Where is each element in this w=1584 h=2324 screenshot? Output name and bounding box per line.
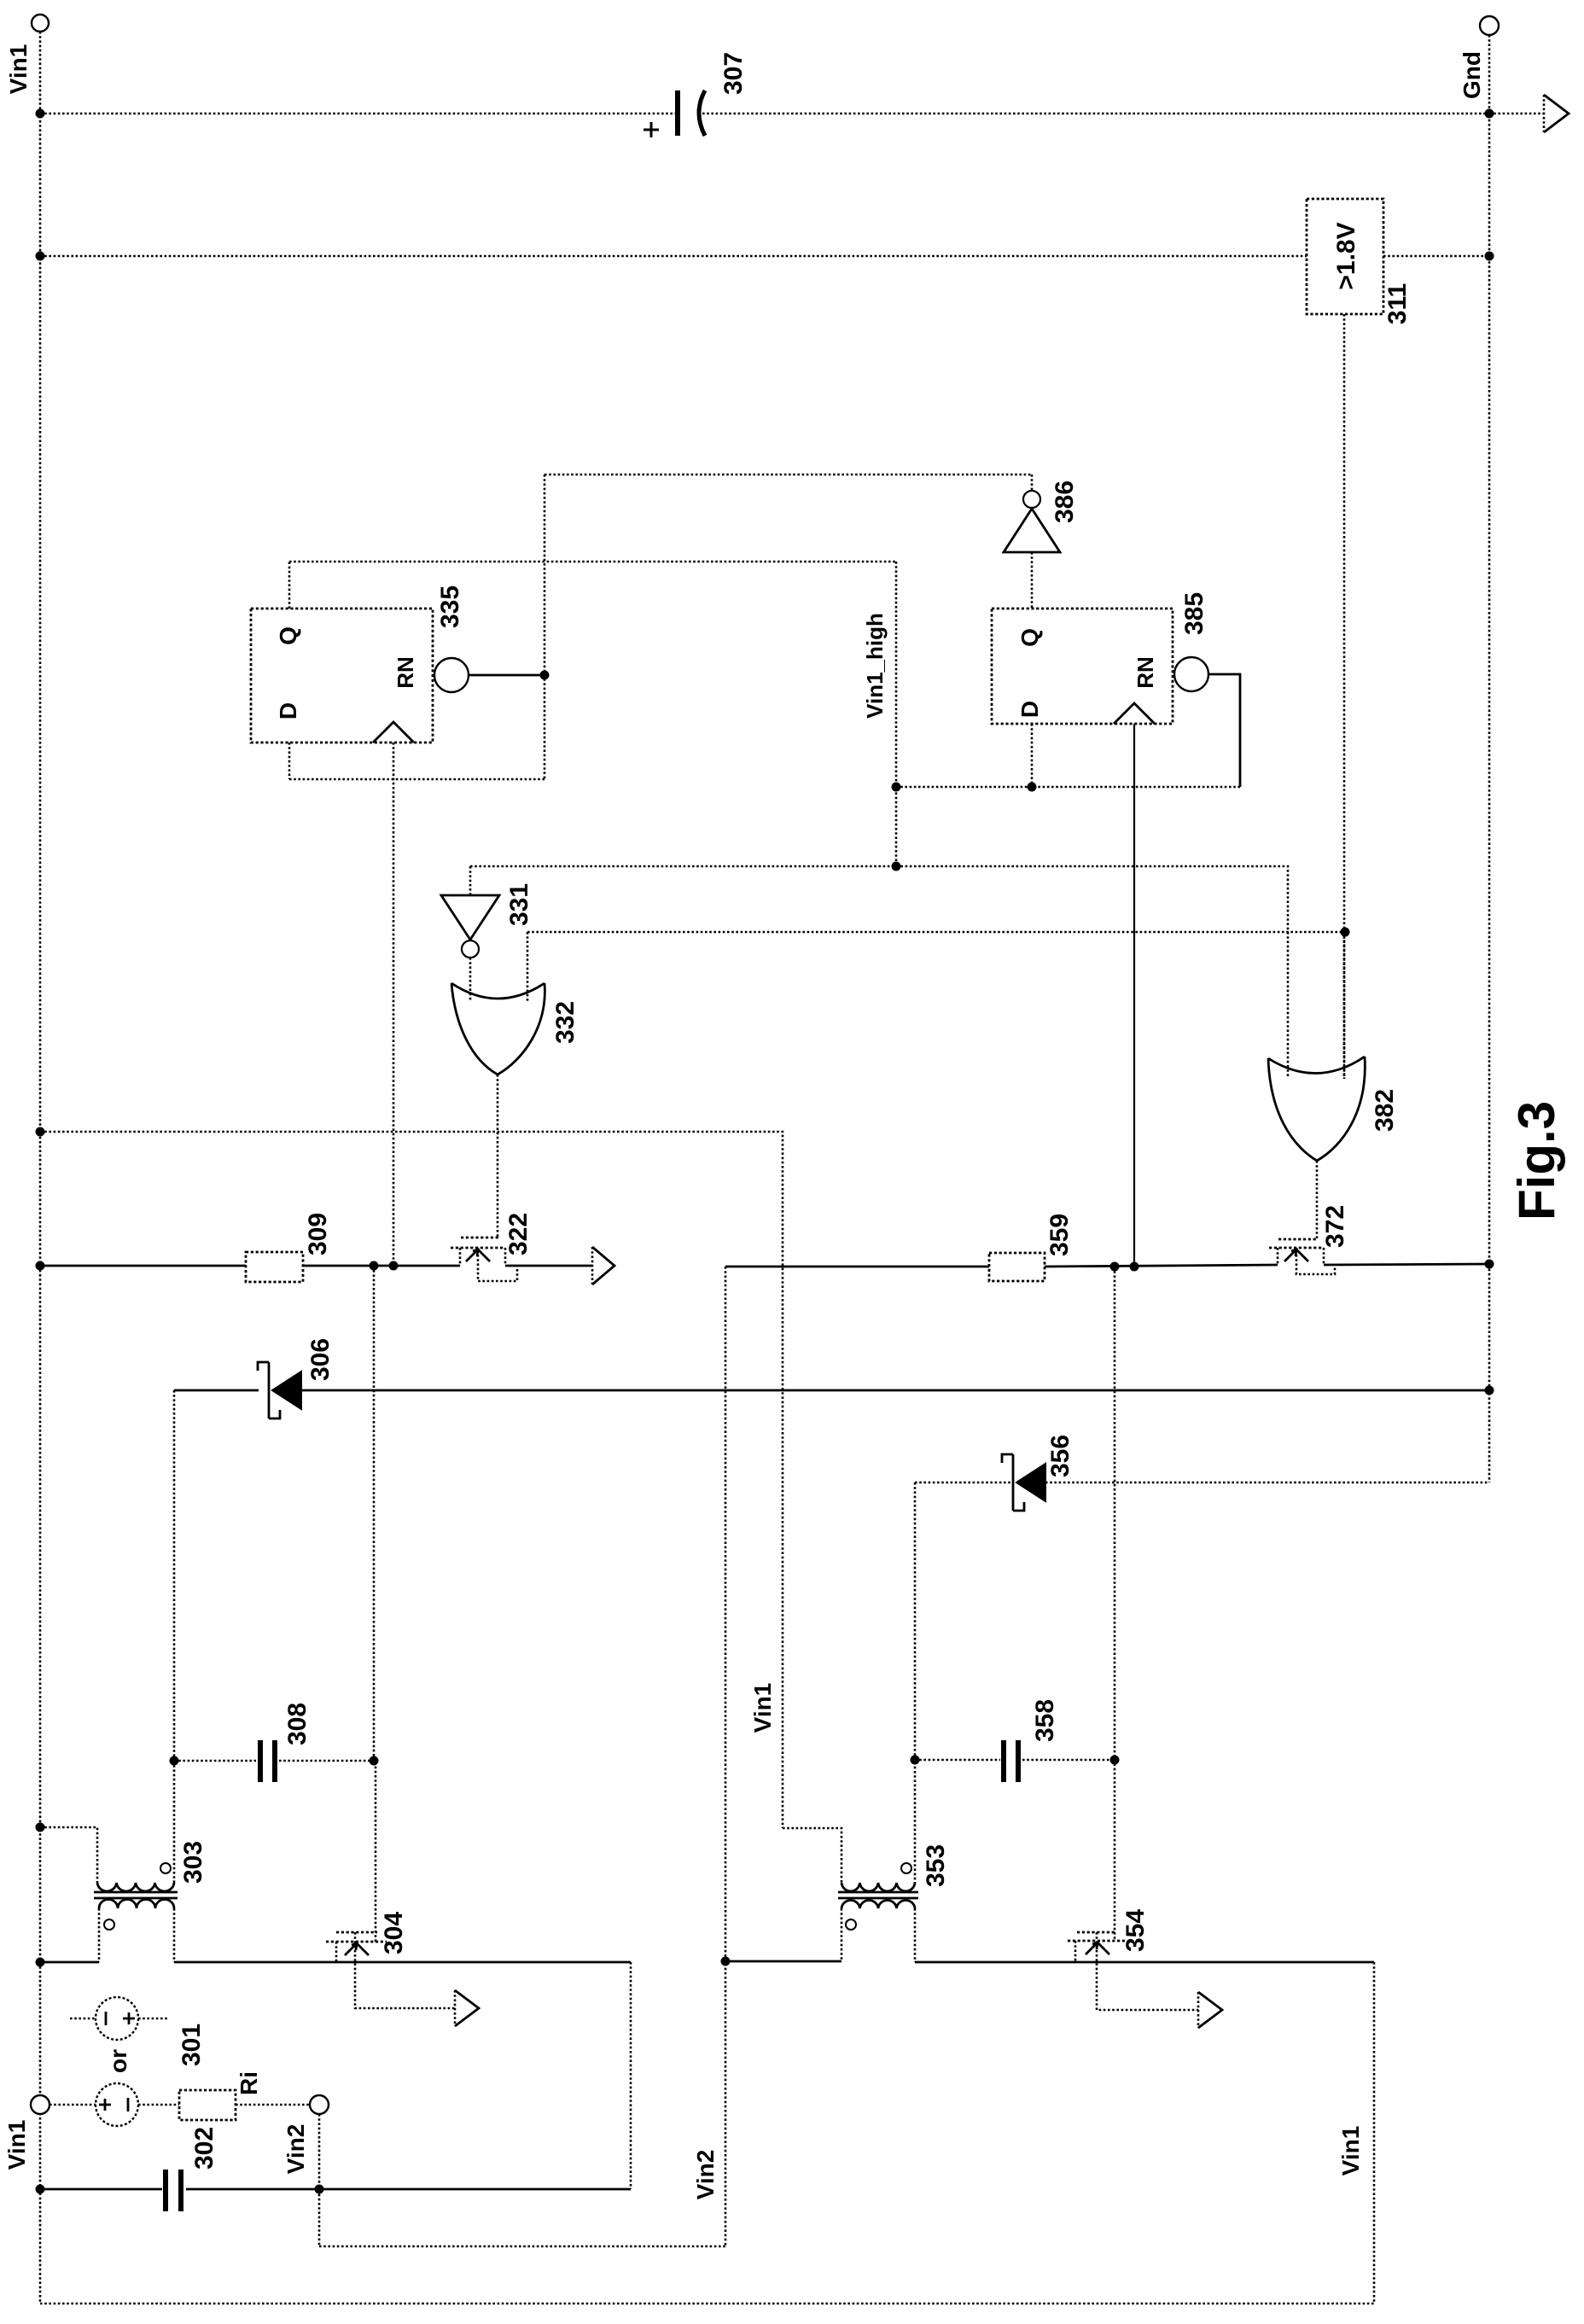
svg-text:Fig.3: Fig.3 <box>1508 1101 1565 1220</box>
wire MOSFET 322 drain to arrow <box>505 1265 592 1267</box>
svg-text:D: D <box>275 702 301 719</box>
wire Vin1_high row to inverter 331 and comparator drop <box>470 866 1288 932</box>
capacitor C302 <box>166 2170 181 2211</box>
node Vin1_high vertical <box>895 562 898 866</box>
svg-text:Vin1: Vin1 <box>749 1683 776 1733</box>
svg-text:301: 301 <box>178 2024 206 2066</box>
svg-text:332: 332 <box>551 1001 579 1044</box>
inverter U386 <box>1004 491 1060 552</box>
wire MOSFET 372 drain to Gnd bus <box>1324 1264 1489 1265</box>
svg-text:or: or <box>105 2049 131 2073</box>
wire 353 primary left leg <box>841 1908 843 1961</box>
wire Vin1 to transformer 303 top <box>40 1827 97 1883</box>
junction dot zener branch/1483 <box>370 1261 379 1271</box>
wire zener 356 row left <box>915 1482 1013 1484</box>
junction dot Vin1/2565 <box>36 2185 45 2194</box>
wire RN335 bubble to node <box>469 674 544 677</box>
junction dot Gnd/second rail <box>1485 252 1494 261</box>
arrow off-page (354 gate) <box>1198 1992 1222 2028</box>
svg-text:Q: Q <box>1016 628 1043 647</box>
svg-text:311: 311 <box>1383 283 1412 324</box>
junction dot Vin2/2298 <box>721 1957 731 1966</box>
capacitor C358 <box>1004 1740 1018 1782</box>
wire 303 primary right leg <box>173 1908 176 1962</box>
svg-text:303: 303 <box>179 1841 207 1884</box>
wire bus 1483 left (Vin1 to resistor 309) <box>40 1265 246 1267</box>
wire comparator 311 output to Gnd bus <box>1383 255 1489 258</box>
svg-text:D: D <box>1016 701 1043 718</box>
svg-text:Q: Q <box>275 626 301 645</box>
svg-text:306: 306 <box>306 1338 335 1381</box>
resistor Ri 302 <box>179 2090 236 2120</box>
svg-text:Vin1_high: Vin1_high <box>862 613 888 719</box>
transformer T353 <box>838 1863 918 1930</box>
capacitor C308 <box>260 1740 275 1782</box>
wire 353 primary right leg <box>914 1908 917 1962</box>
svg-text:385: 385 <box>1180 592 1208 635</box>
wire Q335 to Vin1_high corner <box>289 561 896 563</box>
wire capacitor 302 row <box>40 2188 631 2191</box>
svg-text:Vin1: Vin1 <box>1337 2126 1364 2176</box>
wire zener 306 to Gnd bus <box>301 1389 1489 1392</box>
wire source bus 353 to corner (Vin1 loop) <box>915 1961 1374 1964</box>
terminal Gnd (top right) <box>1480 16 1499 35</box>
junction dot 358 right <box>1110 1756 1120 1765</box>
terminal Vin1 (top left) <box>32 15 49 32</box>
wire resistor 359 to MOSFET 372 <box>1045 1265 1278 1267</box>
D flip-flop U385 <box>992 609 1173 724</box>
svg-text:RN: RN <box>1133 656 1158 689</box>
junction dot 358 left <box>911 1756 920 1765</box>
junction dot Vin2/2565 <box>315 2185 324 2194</box>
wire Vin2 bus (coil to corner) <box>174 1961 631 1964</box>
wire Vin1_high to RN385 run <box>896 786 1240 789</box>
wire OR 382 left input drop <box>1287 932 1290 1077</box>
wire clock U335 to node 1483 <box>393 743 395 1266</box>
svg-text:309: 309 <box>304 1213 332 1255</box>
clock pin triangle of U335 <box>373 722 414 743</box>
wire capacitor 308 row <box>174 1760 374 1762</box>
svg-text:Vin1: Vin1 <box>5 44 32 95</box>
wire Vin1 left vertical bus <box>39 32 42 2304</box>
wire zener 356 to Gnd corner <box>1045 1482 1489 1484</box>
junction dot Vin1_high/922 <box>892 783 901 792</box>
zener diode D356 <box>1002 1454 1045 1511</box>
D flip-flop U335 <box>251 609 433 743</box>
terminal Vin2 <box>310 2095 329 2114</box>
junction dot Vin1/2141 <box>36 1823 45 1832</box>
wire Q335 up <box>288 562 291 609</box>
wire Vin2 node to 353 coil <box>725 1960 841 1963</box>
svg-text:322: 322 <box>504 1213 533 1255</box>
svg-text:>1.8V: >1.8V <box>1332 222 1360 289</box>
wire 354 drain vertical <box>1114 1267 1116 1941</box>
wire comparator 311 output down to OR gates <box>1343 314 1346 1079</box>
comparator U311 box >1.8V <box>1307 199 1383 314</box>
svg-text:308: 308 <box>283 1703 312 1745</box>
voltage source V301 (lower) <box>49 2083 179 2126</box>
svg-text:331: 331 <box>505 883 533 926</box>
svg-text:302: 302 <box>190 2127 218 2170</box>
arrow off-page (Gnd rail) <box>1544 95 1569 132</box>
wire inverter 386 output drop <box>1031 475 1034 491</box>
transistor Q372 <box>1269 1239 1335 1274</box>
OR gate U332 <box>451 983 544 1075</box>
wire D335 down <box>288 743 291 779</box>
capacitor C307 <box>643 90 705 137</box>
svg-text:RN: RN <box>393 656 418 689</box>
svg-text:354: 354 <box>1121 1909 1150 1952</box>
terminal Vin1 (bottom left) <box>31 2095 49 2114</box>
junction dot Vin1_high/1015 <box>892 862 901 871</box>
arrow off-page (304 gate) <box>455 1990 479 2026</box>
OR gate U382 <box>1268 1057 1365 1161</box>
transistor Q304 <box>326 1932 455 2008</box>
wire OR 382 right input drop <box>1343 932 1346 1077</box>
wire Vin1 row to transformer 353 <box>783 1828 841 1883</box>
wire Gnd node to arrow <box>1489 113 1544 115</box>
wire D385 down <box>1031 724 1034 787</box>
svg-text:382: 382 <box>1371 1089 1399 1132</box>
wire resistor 309 to MOSFET 322 <box>303 1265 460 1267</box>
svg-text:Gnd: Gnd <box>1459 51 1485 99</box>
wire Vin1 branch row 1326 <box>40 1132 783 1828</box>
svg-text:Vin2: Vin2 <box>692 2150 719 2200</box>
wire zener 306 branch vertical <box>373 1266 376 1761</box>
wire Gnd right vertical bus <box>1488 35 1491 1482</box>
junction dot Gnd/1629 <box>1485 1386 1494 1395</box>
svg-text:359: 359 <box>1045 1214 1074 1256</box>
resistor R309 <box>246 1252 303 1282</box>
transistor Q322 <box>451 1238 517 1281</box>
wire zener 306 row <box>174 1389 259 1392</box>
junction dot clock385 branch/1483 <box>1130 1262 1139 1272</box>
inverter U331 <box>441 866 499 958</box>
wire zener 306 left drop <box>173 1390 176 1761</box>
wire inverter 386 input from Q385 <box>1031 552 1034 609</box>
wire clock U385 down <box>1133 724 1135 1264</box>
resistor R359 <box>989 1253 1045 1281</box>
arrow off-page (322 drain) <box>592 1247 614 1284</box>
clock pin triangle of U385 <box>1114 703 1155 724</box>
wire 304 drain vertical <box>375 1761 377 1942</box>
wire zener 356 left vertical <box>914 1482 917 1883</box>
svg-text:304: 304 <box>380 1912 408 1954</box>
wire bus 1483 right segment (Vin2 to resistor 359) <box>725 1266 989 1268</box>
junction dot Gnd/1481 <box>1485 1260 1494 1269</box>
svg-text:Ri: Ri <box>236 2071 262 2095</box>
transistor Q354 <box>1068 1932 1198 2010</box>
wire 303 primary left leg <box>98 1908 101 1962</box>
junction dot 308 left <box>170 1756 179 1766</box>
wire inverter 386 output run <box>544 474 1032 476</box>
junction dot Vin1/second rail <box>36 252 45 261</box>
reset bubble of U385 <box>1174 657 1208 691</box>
wire OR 382 output to gate of 372 <box>1316 1161 1319 1239</box>
wire OR 332 output to gate of 322 <box>497 1075 499 1238</box>
wire capacitor 358 row <box>915 1759 1115 1762</box>
svg-text:372: 372 <box>1321 1205 1349 1248</box>
wire inverter 331 output to OR 332 <box>469 958 472 1000</box>
current source I301 (upper) <box>70 1997 167 2040</box>
wire OR 332 right input drop <box>527 932 529 1002</box>
transformer T303 <box>94 1863 178 1930</box>
wire Vin1 bottom rail <box>40 2303 1374 2305</box>
wire Vin2 bottom run to Vin2 vertical <box>319 2245 725 2248</box>
wire second rail Vin1 to comparator 311 <box>40 255 1307 258</box>
junction dot Vin1/2299 <box>36 1958 45 1967</box>
reset bubble of U335 <box>434 658 469 692</box>
svg-text:356: 356 <box>1046 1435 1074 1477</box>
junction dot Vin1/1326 <box>36 1127 45 1137</box>
svg-text:353: 353 <box>922 1844 950 1887</box>
svg-text:Vin2: Vin2 <box>282 2124 309 2175</box>
junction dot 308 right <box>370 1756 379 1766</box>
svg-text:307: 307 <box>719 52 748 95</box>
wire Vin2 terminal down <box>318 2114 321 2246</box>
junction dot D385 node <box>1028 783 1037 792</box>
junction dot Vin1/1483 <box>36 1261 45 1271</box>
junction dot clock335 branch/1483 <box>389 1261 399 1271</box>
wire capacitor 307 to Gnd node <box>702 113 1489 115</box>
junction dot Gnd/top rail <box>1485 109 1494 119</box>
junction dot Vin1/top rail <box>36 109 45 119</box>
wire top rail Vin1 to capacitor 307 <box>40 113 678 115</box>
svg-text:Vin1: Vin1 <box>3 2120 30 2170</box>
junction dot RN335 node <box>540 671 550 680</box>
junction dot comparator line/1092 <box>1341 928 1350 937</box>
wire Vin2 bus left (Vin1 junction to coil) <box>40 1961 99 1964</box>
wire D335 run to reset node <box>289 778 544 781</box>
node Vin2 vertical <box>725 1267 727 2246</box>
junction dot drain354 branch/1483 <box>1110 1262 1120 1272</box>
zener diode D306 <box>258 1362 301 1418</box>
wire reset node vertical <box>544 475 546 779</box>
wire Ri to Vin2 terminal <box>236 2104 309 2106</box>
wire 303 secondary top right vertical <box>173 1761 176 1883</box>
svg-text:358: 358 <box>1031 1699 1059 1742</box>
svg-text:335: 335 <box>436 585 464 628</box>
wire RN385 bubble loop <box>1208 674 1240 787</box>
wire OR row 1092 <box>527 931 1345 934</box>
svg-text:386: 386 <box>1051 481 1079 523</box>
